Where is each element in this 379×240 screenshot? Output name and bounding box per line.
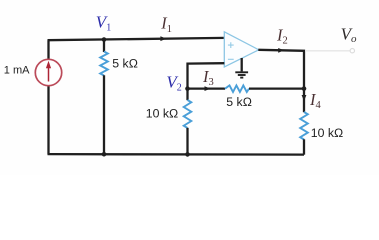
node bottom of V1 branch (junction dot) <box>102 152 107 157</box>
wire bottom rail <box>48 153 305 156</box>
svg-text:5 kΩ: 5 kΩ <box>112 57 138 71</box>
wire V1 branch lower <box>103 75 105 154</box>
wire right branch lower <box>303 139 305 154</box>
svg-text:I3: I3 <box>202 67 214 88</box>
wire V2 branch to bottom rail <box>186 128 188 155</box>
resistor 5k (feedback branch, horizontal) <box>225 85 249 92</box>
ground (op-amp) <box>235 58 248 78</box>
svg-text:Vo: Vo <box>341 24 357 44</box>
current arrow I4 <box>302 95 307 101</box>
wire V2 branch down <box>186 89 188 101</box>
wire op-amp minus input from V2 <box>188 63 225 88</box>
terminal Vo (open circle) <box>350 49 354 53</box>
wire horizontal resistor to right branch <box>249 87 304 89</box>
current arrow I1 <box>160 36 166 41</box>
svg-text:I4: I4 <box>309 90 322 111</box>
wire V2 to horizontal resistor <box>188 87 226 89</box>
node V1 (junction dot) <box>102 37 107 42</box>
svg-text:I1: I1 <box>160 14 172 35</box>
node V2 (junction dot) <box>185 86 190 91</box>
resistor 5k (V1 branch) <box>100 52 108 76</box>
wire output lead to Vo terminal <box>305 50 350 52</box>
op-amp U1 <box>224 32 258 67</box>
svg-text:V1: V1 <box>96 12 111 33</box>
svg-text:10 kΩ: 10 kΩ <box>311 126 343 140</box>
resistor 10k (V2 branch) <box>184 100 192 128</box>
wire right branch upper <box>303 89 305 113</box>
svg-text:V2: V2 <box>166 72 181 93</box>
node bottom of V2 branch (junction dot) <box>185 152 190 157</box>
resistor 10k (right branch) <box>300 112 308 140</box>
svg-text:1 mA: 1 mA <box>4 65 30 77</box>
wire V1 branch upper <box>103 40 105 53</box>
node right branch junction (junction dot) <box>302 86 307 91</box>
wire left branch bottom (source to bottom rail) <box>47 85 49 154</box>
wire left branch top (source to top rail) <box>47 40 49 60</box>
svg-text:I2: I2 <box>276 25 288 46</box>
current arrow I3 <box>205 86 211 91</box>
wire op-amp output to right branch <box>258 50 304 89</box>
wire top rail <box>48 38 225 40</box>
current arrow I2 <box>278 48 284 53</box>
svg-text:5 kΩ: 5 kΩ <box>226 95 252 109</box>
current source I=1mA <box>35 59 61 85</box>
svg-text:10 kΩ: 10 kΩ <box>146 106 178 120</box>
